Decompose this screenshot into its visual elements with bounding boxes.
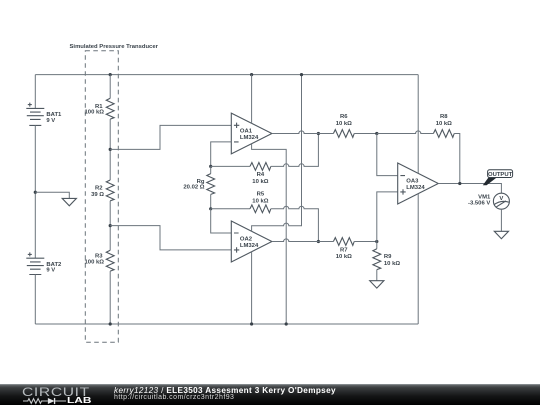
svg-text:R9: R9 [384, 254, 392, 260]
resistor R9 [373, 242, 400, 281]
node: R3 bottom / bottom rail [109, 322, 112, 325]
node flag: OUTPUT [483, 170, 513, 186]
wire: R8 to OA3 output [454, 134, 460, 184]
footer bar [0, 384, 540, 405]
svg-text:20.02 Ω: 20.02 Ω [183, 185, 204, 191]
resistor R7 [333, 238, 354, 260]
wire: OA2 V+ pin (hop at 286.2) [252, 75, 302, 232]
wire: Rg bottom to OA2 - input [211, 209, 232, 233]
footer title text [114, 386, 336, 395]
svg-text:10 kΩ: 10 kΩ [336, 254, 352, 260]
wire: OA2 output (hop at 286.2) [272, 239, 334, 242]
wire: OA2 V- pin to bottom rail [251, 252, 253, 324]
svg-text:R6: R6 [340, 114, 348, 120]
logo CIRCUIT LAB [22, 385, 90, 399]
svg-text:10 kΩ: 10 kΩ [252, 179, 268, 185]
svg-text:R8: R8 [440, 114, 448, 120]
wire: R1 to R2 [109, 119, 111, 180]
logo glyph: resistor + diode [23, 397, 67, 405]
voltmeter VM1 [468, 193, 509, 209]
wire: OA1 V- pin to bottom rail [252, 144, 287, 324]
svg-text:10 kΩ: 10 kΩ [336, 121, 352, 127]
svg-text:R7: R7 [340, 247, 348, 253]
ground GND1 [62, 198, 76, 205]
node: bridge tap 1 [109, 148, 112, 151]
wire: ground tap [35, 192, 69, 198]
svg-text:10 kΩ: 10 kΩ [436, 121, 452, 127]
wire: tap1 to OA1 + input [110, 125, 231, 149]
wire: OA3 + input riser [377, 192, 398, 242]
svg-text:LM324: LM324 [240, 243, 259, 249]
resistor R6 [333, 114, 354, 137]
wire: OA3 output to voltmeter [438, 184, 501, 194]
wire: battery column top lead [34, 75, 36, 109]
node: R8 / output junction [458, 182, 461, 185]
op-amp OA3 [398, 163, 439, 204]
node: R4 / OA1 output junction [317, 132, 320, 135]
op-amp OA1 [231, 113, 272, 154]
wire: OA3 V+ pin from top rail [417, 75, 419, 174]
svg-text:OA2: OA2 [240, 236, 253, 242]
wire: R6 to OA3 - node [354, 133, 377, 135]
wire: bottom rail [35, 323, 418, 325]
node: Rg bottom junction [209, 207, 212, 210]
battery BAT2 [26, 252, 62, 274]
resistor R1 [85, 98, 115, 119]
node: OA2 V- / bottom rail [250, 322, 253, 325]
svg-text:OUTPUT: OUTPUT [488, 172, 513, 178]
wire: R1 top lead [109, 75, 111, 99]
node: OA2 V+ / top rail [300, 73, 303, 76]
resistor R4 [211, 163, 271, 186]
node: battery midpoint [34, 191, 37, 194]
wire: OA3 - input riser [377, 134, 398, 176]
wire: top rail [35, 74, 418, 76]
svg-text:LM324: LM324 [406, 185, 425, 191]
wire: R5 line to OA2 output (hops at 286.2, 301.5) [271, 206, 319, 241]
wire: R7 to R9 node [354, 241, 377, 243]
wire: R3 bottom lead [109, 271, 111, 324]
dashed box: simulated pressure transducer [70, 44, 159, 342]
wire: OA1 - input to Rg top [211, 142, 232, 167]
svg-text:-3.506 V: -3.506 V [468, 201, 490, 207]
svg-text:R4: R4 [257, 172, 265, 178]
svg-text:39 Ω: 39 Ω [91, 192, 104, 198]
svg-text:100 kΩ: 100 kΩ [85, 110, 105, 116]
svg-text:R3: R3 [95, 253, 103, 259]
svg-text:9 V: 9 V [46, 268, 55, 274]
node: OA1 V- / bottom rail [285, 322, 288, 325]
wire: OA3 V- pin to bottom rail [417, 194, 419, 324]
svg-text:OA1: OA1 [240, 128, 253, 134]
resistor R5 [211, 192, 271, 213]
wire: R4 line to OA1 output (hops at 286.2, 301.5) [271, 134, 319, 167]
node: R5 / OA2 output junction [317, 240, 320, 243]
wire: R6 node to R8 (hop at 418.2) [377, 131, 434, 134]
resistor R3 [85, 250, 115, 271]
svg-text:10 kΩ: 10 kΩ [384, 261, 400, 267]
ground GND3 (VM1) [494, 231, 508, 238]
wire: BAT2 to bottom rail [34, 275, 36, 325]
op-amp OA2 [231, 221, 272, 262]
svg-text:R5: R5 [257, 192, 265, 198]
footer url text [114, 394, 234, 401]
node: R7 / R9 / OA3 + junction [375, 240, 378, 243]
wire: OA1 output (hop at 301.5) [272, 131, 334, 134]
node: bridge tap 2 [109, 224, 112, 227]
node: R1 top / top rail [109, 73, 112, 76]
resistor R2 [91, 180, 114, 201]
resistor Rg [183, 166, 214, 208]
svg-text:R2: R2 [95, 186, 103, 192]
ground GND2 (R9) [370, 281, 384, 288]
battery BAT1 [26, 103, 62, 126]
svg-text:10 kΩ: 10 kΩ [252, 198, 268, 204]
wire: OA1 V+ pin [251, 75, 253, 124]
svg-text:Simulated Pressure Transducer: Simulated Pressure Transducer [70, 44, 159, 50]
node: Rg top junction [209, 165, 212, 168]
wire: BAT1 to BAT2 [34, 125, 36, 258]
svg-text:9 V: 9 V [46, 118, 55, 124]
svg-text:OA3: OA3 [406, 178, 419, 184]
wire: VM1 to ground [500, 209, 502, 231]
node: OA1 V+ / top rail [250, 73, 253, 76]
svg-text:LM324: LM324 [240, 135, 259, 141]
wire: tap2 to OA2 + input [110, 226, 231, 250]
wire: R2 to R3 [109, 201, 111, 251]
svg-text:100 kΩ: 100 kΩ [85, 259, 105, 265]
resistor R8 [433, 114, 454, 137]
node: R6 / R8 / OA3 - junction [375, 132, 378, 135]
